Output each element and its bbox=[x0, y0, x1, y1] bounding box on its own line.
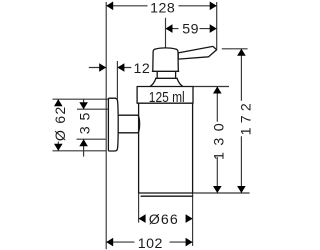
svg-text:35: 35 bbox=[78, 107, 94, 134]
svg-text:125 ml: 125 ml bbox=[149, 89, 185, 105]
svg-text:128: 128 bbox=[150, 1, 175, 17]
svg-text:130: 130 bbox=[212, 117, 228, 160]
svg-text:12: 12 bbox=[134, 61, 151, 77]
svg-text:Ø66: Ø66 bbox=[149, 212, 179, 228]
svg-text:172: 172 bbox=[238, 99, 254, 135]
svg-text:Ø 62: Ø 62 bbox=[53, 106, 69, 142]
svg-text:102: 102 bbox=[138, 236, 163, 250]
svg-text:59: 59 bbox=[182, 22, 199, 38]
